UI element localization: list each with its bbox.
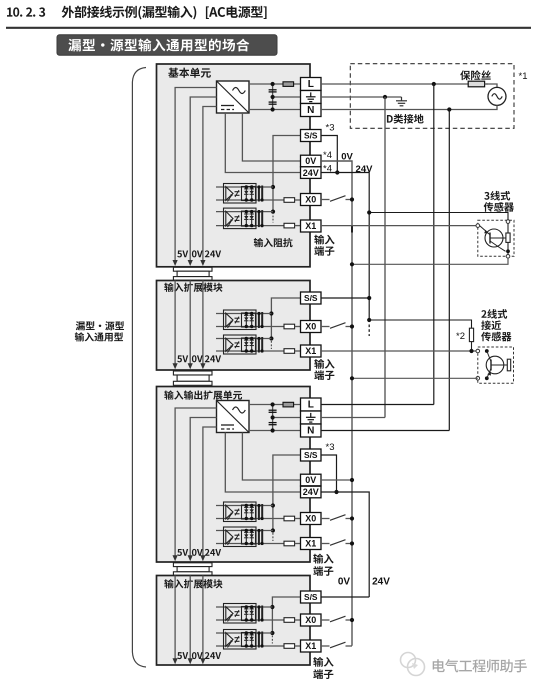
svg-text:S/S: S/S: [304, 293, 318, 303]
5V/0V/24V rails (basic unit): [173, 88, 222, 267]
junction cap-earth (blk3): [271, 415, 275, 419]
junction earth bus: [383, 95, 387, 99]
label *2: [456, 331, 465, 342]
sensor3 dashed box: [478, 220, 514, 256]
svg-text:0V: 0V: [305, 475, 316, 485]
label 24V lower: [372, 577, 390, 588]
optocoupler X1 (basic unit): [216, 208, 301, 229]
S/S bus junction row2 (blk4): [270, 631, 274, 635]
S/S internal bus (ext module): [271, 298, 300, 339]
terminal earth (blk3): [301, 411, 322, 424]
optocoupler X1 (blk4): [216, 630, 301, 650]
svg-text:*4: *4: [323, 150, 332, 161]
junction N-cap (blk3): [271, 428, 275, 432]
input output extension unit block: [157, 387, 311, 563]
label *1: [519, 71, 528, 82]
terminal N (blk3): [301, 424, 322, 437]
junction S/S-24V (blk3): [334, 490, 338, 494]
dashed enclosure AC supply: [350, 64, 514, 129]
sensor3 internal supply: [507, 223, 509, 233]
wire converter to N: [249, 109, 301, 111]
input extension module 2 block: [157, 576, 311, 666]
svg-text:X0: X0: [305, 615, 316, 625]
wire X1 to 3-wire sensor: [321, 225, 476, 227]
svg-text:24V: 24V: [303, 487, 319, 497]
wire 24V to sensor3: [369, 213, 508, 220]
wire earth terminal to ground: [321, 96, 402, 98]
wire *2 to sensor2: [471, 342, 473, 351]
svg-text:*3: *3: [326, 123, 335, 134]
class D ground label: [387, 114, 424, 124]
junction sensor3-0V: [350, 262, 354, 266]
svg-text:X1: X1: [305, 539, 316, 549]
wire 24V terminal internal: [225, 113, 300, 173]
terminal X0 (blk4): [301, 614, 322, 626]
svg-text:N: N: [307, 426, 314, 437]
svg-text:S/S: S/S: [304, 450, 318, 460]
terminal N (basic unit): [301, 104, 322, 117]
bus connector 3: [173, 563, 212, 576]
rails (input ext module): [173, 281, 222, 370]
sensor3 junction: [506, 249, 510, 253]
svg-text:N: N: [307, 105, 314, 116]
24V bus upper: [321, 173, 369, 321]
S/S bus dashes (ext): [270, 341, 272, 349]
S/S bus junction row2 (ext): [269, 336, 273, 340]
svg-text:X1: X1: [305, 641, 316, 651]
svg-text:X0: X0: [305, 322, 316, 332]
wire S/S to 24V (blk4): [321, 596, 369, 598]
sensor3 internal lower: [507, 242, 509, 254]
optocoupler X0 (blk4): [216, 604, 301, 624]
2-wire sensor label: [481, 309, 511, 341]
wire S/S to 24V (blk3): [321, 455, 337, 492]
S/S bus dashes (blk4): [271, 636, 273, 644]
sensor2 left bottom terminal: [476, 377, 480, 381]
L bus vertical: [433, 84, 435, 405]
rails (I/O ext unit): [173, 408, 222, 561]
wire 0V terminal internal: [242, 113, 300, 161]
svg-text:X0: X0: [305, 195, 316, 205]
S/S bus dashes (blk3): [272, 533, 274, 541]
terminal S/S (basic unit): [301, 130, 322, 142]
junction *2-X1: [469, 349, 473, 353]
optocoupler X1 (blk3): [216, 527, 301, 547]
svg-text:S/S: S/S: [304, 131, 318, 141]
wire N ext (blk3): [321, 430, 449, 432]
wire S/S to 24V bus (ext): [321, 297, 369, 299]
watermark logo: [401, 653, 425, 676]
N bus vertical: [448, 110, 450, 431]
S/S bus junction row1 (blk3): [271, 503, 275, 507]
wire 0V internal (blk3): [242, 433, 300, 481]
S/S bus junction row1 (blk4): [270, 605, 274, 609]
terminal X1 (blk4): [301, 640, 322, 652]
wire X1 to sensor2: [321, 350, 476, 352]
0V bus dark dashes: [351, 226, 353, 233]
terminal 0V (basic unit): [301, 155, 322, 167]
capacitor C4 plates: [269, 423, 277, 425]
power converter U2 (I/O ext unit): [217, 401, 250, 433]
label *4 upper: [323, 150, 332, 161]
svg-text:24V: 24V: [372, 577, 390, 588]
junction cap-earth: [271, 95, 275, 99]
input terminals label (ext module): [314, 359, 334, 380]
rails (ext module 2): [173, 576, 222, 665]
S/S internal bus (blk4): [272, 597, 300, 633]
fuse F1 internal: [283, 82, 294, 87]
wire 24V to *2 resistor: [369, 320, 471, 328]
wire L to fuse: [321, 83, 468, 85]
junction sensor2-0V: [350, 376, 354, 380]
svg-text:0V: 0V: [338, 577, 351, 588]
switch X0 (blk3): [321, 515, 352, 521]
svg-text:L: L: [308, 400, 314, 411]
terminal X1 (ext module): [301, 345, 322, 357]
svg-text:24V: 24V: [303, 168, 319, 178]
sensor2 top junction: [485, 349, 489, 353]
label 0V lower: [338, 577, 351, 588]
fuse label 保险丝: [460, 70, 491, 80]
junction X0-0V (blk4): [350, 618, 354, 622]
input extension module block: [157, 281, 311, 371]
S/S bus junction row1 (ext): [269, 311, 273, 315]
junction S/S-24V (ext): [367, 296, 371, 300]
terminal X0 (basic unit): [301, 194, 322, 206]
wire S/S to 24V bus: [321, 136, 337, 173]
terminal L (blk3): [301, 398, 322, 411]
switch X1 (blk4): [321, 642, 352, 648]
terminal X0 (blk3): [301, 513, 322, 525]
wire converter to L: [249, 83, 301, 85]
bus connector 2: [173, 371, 212, 385]
svg-text:S/S: S/S: [304, 592, 318, 602]
3-wire sensor label: [484, 191, 514, 212]
input terminals label (blk4): [313, 657, 333, 679]
0V bus: [321, 161, 352, 646]
svg-text:*3: *3: [326, 442, 335, 453]
optocoupler X1 (ext module): [216, 335, 301, 354]
wire N to source: [321, 105, 497, 109]
svg-text:*1: *1: [519, 71, 528, 82]
junction L-cap (blk3): [271, 402, 275, 406]
label *4 lower: [323, 163, 332, 174]
junction L bus: [432, 82, 436, 86]
junction 0V bus (blk3): [350, 478, 354, 482]
sensor2 transistor Q2: [486, 351, 507, 378]
sensor2 dashed box: [478, 347, 514, 383]
wire L ext (blk3): [321, 404, 434, 406]
24V bus dashes: [368, 325, 370, 337]
sensor3 load resistor: [506, 233, 510, 242]
sensor3 bottom terminal: [506, 254, 510, 258]
svg-text:L: L: [308, 79, 314, 90]
sensor3 top terminal: [506, 220, 510, 224]
optocoupler X0 (ext module): [216, 310, 301, 330]
wire earth ext (blk3): [321, 417, 385, 419]
junction X0-0V (blk3): [350, 516, 354, 520]
wire fuse to source: [485, 84, 497, 87]
switch X0 (ext module): [321, 323, 352, 329]
input impedance label: [254, 238, 293, 247]
capacitor branch line (blk3): [272, 405, 274, 431]
left bracket label: [75, 321, 124, 341]
svg-text:*2: *2: [456, 331, 465, 342]
svg-text:X1: X1: [305, 346, 316, 356]
S/S bus junction row2: [271, 210, 275, 214]
wire 24V internal (blk3): [225, 433, 300, 493]
junction 24V sensor3: [367, 210, 371, 214]
terminal 24V (basic unit): [301, 167, 322, 179]
title text: [7, 6, 267, 20]
bus connector 1: [173, 267, 212, 280]
junction X1-0V (blk3): [350, 541, 354, 545]
left bracket 漏型源型输入通用型: [132, 68, 146, 668]
input terminals label (blk3): [313, 554, 333, 576]
24V bus lower: [321, 492, 369, 597]
terminal 0V (blk3): [301, 474, 322, 486]
terminal L (basic unit): [301, 78, 322, 91]
svg-text:0V: 0V: [305, 156, 316, 166]
wire earth internal (blk3): [273, 417, 301, 419]
capacitor C2 plates: [269, 102, 277, 104]
wire sensor3 return to 0V bus: [352, 258, 508, 264]
sensor3 left terminal: [476, 224, 480, 228]
label 0V takeoff: [341, 151, 353, 162]
wire converter to L (blk3): [249, 404, 301, 406]
S/S bus junction row1: [271, 185, 275, 189]
S/S bus junction row2 (blk3): [271, 528, 275, 532]
power converter U1 (basic unit): [217, 81, 250, 113]
terminal earth (basic unit): [301, 91, 322, 104]
terminal 24V (blk3): [301, 486, 322, 498]
switch X1 (blk3): [321, 540, 352, 546]
sensor2 load resistor: [507, 359, 510, 371]
fuse F3 internal: [283, 402, 294, 407]
watermark text: [433, 659, 527, 672]
svg-text:24V: 24V: [356, 164, 374, 175]
terminal S/S (ext module): [301, 292, 322, 304]
terminal X1 (blk3): [301, 538, 322, 550]
sensor2 left top terminal: [476, 349, 480, 353]
junction N-cap: [271, 107, 275, 111]
label *3 (blk3): [326, 442, 335, 453]
wire earth terminal internal: [273, 96, 301, 98]
svg-text:X1: X1: [305, 221, 316, 231]
junction L-cap: [271, 82, 275, 86]
junction 24V-*2: [367, 318, 371, 322]
optocoupler X0 (basic unit): [216, 184, 301, 204]
switch X0 (basic unit): [321, 196, 352, 202]
junction S/S-24V: [335, 170, 339, 174]
section header bar: [57, 35, 277, 55]
svg-text:X0: X0: [305, 514, 316, 524]
title underline: [6, 27, 531, 29]
input terminals label (basic unit): [314, 235, 334, 256]
switch X0 (blk4): [321, 616, 352, 622]
basic unit block: [157, 64, 311, 267]
label *3 (basic unit): [326, 123, 335, 134]
wire converter to N (blk3): [249, 430, 301, 432]
wire sensor2 return to 0V bus: [352, 377, 478, 379]
earth bus vertical: [384, 97, 386, 418]
junction N bus: [447, 107, 451, 111]
terminal S/S (blk4): [301, 591, 322, 603]
capacitor C3 plates: [269, 410, 277, 412]
wire 0V to bus (blk3): [321, 479, 352, 481]
sensor3 transistor Q1: [480, 226, 506, 252]
AC source G1: [488, 87, 506, 105]
S/S internal bus (blk3): [273, 455, 301, 531]
capacitor branch line: [272, 84, 274, 110]
capacitor C1 plates: [269, 90, 277, 92]
ground symbol (class D): [396, 97, 407, 106]
S/S bus continuation dashes: [272, 214, 274, 223]
S/S internal bus (basic unit): [273, 136, 301, 212]
resistor *2: [469, 328, 473, 341]
terminal X1 (basic unit): [301, 220, 322, 232]
optocoupler X0 (blk3): [216, 502, 301, 522]
junction X0-0V (ext): [350, 324, 354, 328]
label 24V takeoff: [356, 164, 374, 175]
terminal S/S (blk3): [301, 449, 322, 461]
fuse F2 external: [468, 81, 488, 87]
junction X0-0V (basic unit): [350, 197, 354, 201]
sensor2 bottom junction: [485, 376, 489, 380]
terminal X0 (ext module): [301, 321, 322, 333]
